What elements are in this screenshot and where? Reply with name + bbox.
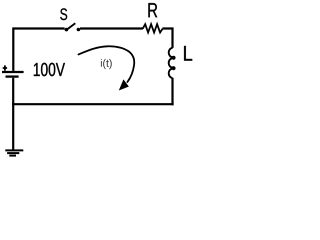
switch S blade — [66, 23, 76, 30]
wire: battery negative to ground — [12, 78, 14, 150]
ground middle bar — [7, 152, 19, 154]
battery V1 negative plate — [6, 75, 19, 77]
wire: bottom return — [12, 103, 174, 105]
label L — [184, 46, 192, 61]
ground top bar — [5, 149, 23, 151]
switch S right contact dot — [77, 28, 81, 32]
battery V1 plus polarity mark — [3, 65, 7, 70]
ground bottom bar — [9, 155, 16, 157]
label i(t) — [101, 59, 112, 69]
inductor L coil — [169, 48, 175, 78]
current arrow i(t) arrowhead — [120, 81, 128, 90]
wire: inductor to bottom-right corner — [171, 78, 173, 105]
wire: resistor to top-right corner — [162, 27, 173, 48]
current arrow i(t) arc — [79, 46, 135, 82]
battery V1 positive plate — [2, 71, 24, 73]
label R — [148, 3, 157, 17]
switch S pivot contact dot — [65, 28, 69, 32]
wire: battery positive to switch (top-left corner) — [12, 27, 64, 71]
label S — [60, 8, 67, 20]
resistor R zigzag — [143, 24, 163, 32]
label 100V — [34, 63, 65, 76]
wire: switch to resistor — [80, 27, 143, 29]
